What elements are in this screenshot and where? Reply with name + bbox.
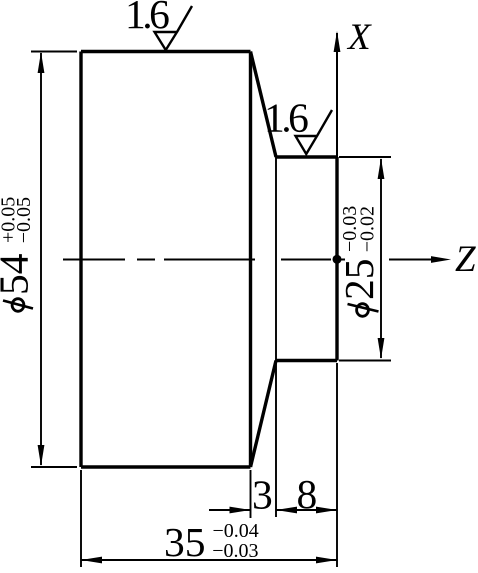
phi25 dimension line: [380, 159, 382, 358]
X axis line: [336, 33, 338, 157]
svg-text:3: 3: [252, 472, 273, 518]
dim 3 left extension line: [250, 470, 252, 518]
phi54 arrow bottom: [38, 445, 45, 466]
part outline: large cylinder body: [81, 52, 251, 468]
phi25 extension line top: [339, 156, 391, 158]
dim 35 arrow right: [316, 557, 337, 564]
svg-text:25−0.03−0.02: 25−0.03−0.02: [336, 206, 382, 300]
dim 8 arrow right: [316, 507, 337, 514]
small cylinder outline: [276, 157, 337, 361]
Z axis line: [337, 259, 435, 261]
Z axis arrowhead: [431, 256, 451, 263]
phi54 extension line top: [31, 51, 77, 53]
taper edge bottom: [251, 361, 277, 468]
dim 35 left extension line: [80, 470, 82, 567]
svg-text:1.6: 1.6: [125, 0, 169, 37]
dim 8 arrow left: [276, 507, 297, 514]
dim 3 dimension line tail with arrow: [209, 509, 251, 511]
roughness symbol 2 (top of small cylinder): [296, 110, 333, 154]
phi25 arrow top: [378, 158, 385, 179]
junction edge line between taper and small cylinder: [275, 157, 277, 517]
svg-text:8: 8: [297, 471, 318, 517]
svg-text:1.6: 1.6: [264, 95, 308, 141]
phi54 dimension line: [40, 53, 42, 465]
roughness symbol 1 (top of large cylinder): [155, 6, 193, 50]
phi25 phi symbol: [357, 304, 369, 317]
phi54 phi symbol: [12, 299, 24, 312]
phi25 arrow bottom: [378, 338, 385, 359]
origin dot: [333, 255, 342, 264]
taper edge top: [251, 52, 277, 158]
X axis arrowhead: [334, 31, 341, 52]
centerline dash-dot: [63, 259, 331, 261]
phi25 extension line bottom: [339, 360, 391, 362]
dim 8 dimension line: [276, 509, 337, 511]
phi54 extension line bottom: [31, 466, 77, 468]
dim 35 arrow left: [81, 557, 102, 564]
right face extension line: [336, 363, 338, 567]
phi54 arrow top: [38, 52, 45, 73]
svg-text:Z: Z: [455, 239, 476, 280]
dim 35 dimension line: [81, 559, 337, 561]
svg-text:X: X: [346, 17, 372, 58]
